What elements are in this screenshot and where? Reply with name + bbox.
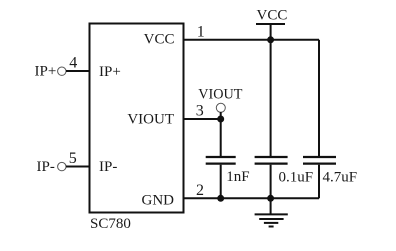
junction VCC rail / C2	[267, 36, 274, 43]
wire VCC bar to rail	[270, 24, 272, 40]
wire VIOUT junction down to C1	[220, 119, 222, 156]
pin 5 terminal circle	[58, 162, 66, 170]
svg-text:1: 1	[197, 23, 205, 40]
wire VCC rail down to C2	[270, 40, 272, 156]
svg-text:SC780: SC780	[90, 216, 131, 232]
wire pin2 GND rail (bottom)	[184, 197, 320, 199]
junction VIOUT node	[217, 116, 224, 123]
wire pin5 circle to IC	[66, 166, 90, 168]
IC U1 body (SC780)	[90, 24, 184, 213]
svg-text:2: 2	[196, 182, 204, 199]
wire pin3 VIOUT to junction	[184, 118, 221, 120]
capacitor C2 plates (0.1uF)	[255, 157, 288, 164]
svg-text:IP-: IP-	[37, 159, 55, 175]
wire C2 bottom to GND rail	[270, 165, 272, 199]
wire test point to junction	[220, 112, 222, 119]
wire pin1 VCC rail (top)	[184, 39, 320, 41]
power symbol VCC bar	[256, 23, 285, 25]
wire VCC rail down to C3	[318, 40, 320, 156]
svg-text:VIOUT: VIOUT	[127, 112, 174, 128]
svg-text:VCC: VCC	[144, 32, 175, 48]
svg-text:3: 3	[196, 103, 204, 120]
junction GND rail / C1	[217, 195, 224, 202]
svg-text:4: 4	[69, 55, 77, 72]
svg-text:GND: GND	[142, 193, 175, 209]
capacitor C3 plates (4.7uF)	[303, 157, 336, 164]
wire C3 bottom to GND rail	[318, 165, 320, 199]
junction GND rail / C2 / ground	[267, 195, 274, 202]
svg-text:5: 5	[69, 150, 77, 167]
svg-text:IP+: IP+	[99, 64, 121, 80]
svg-text:VCC: VCC	[257, 8, 288, 24]
wire C1 bottom to GND rail	[220, 165, 222, 199]
svg-text:0.1uF: 0.1uF	[279, 169, 314, 185]
svg-text:IP+: IP+	[35, 64, 57, 80]
ground symbol	[255, 198, 288, 226]
svg-text:1nF: 1nF	[226, 169, 249, 185]
svg-text:VIOUT: VIOUT	[198, 87, 242, 103]
wire pin4 circle to IC	[66, 70, 90, 72]
pin 4 terminal circle	[58, 67, 66, 75]
svg-text:IP-: IP-	[99, 159, 117, 175]
capacitor C1 plates (1nF)	[206, 157, 236, 164]
svg-text:4.7uF: 4.7uF	[323, 169, 358, 185]
VIOUT test point circle	[216, 103, 225, 112]
